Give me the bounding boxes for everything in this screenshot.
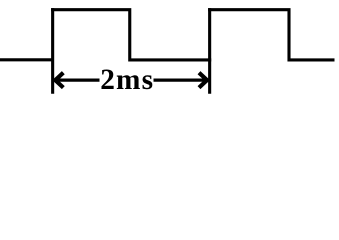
wire pulse1 top, falling edge, mid low segment [51,10,211,60]
dimension arrowhead left [55,73,63,88]
wire pulse2 top, falling edge, right low segment [208,10,334,60]
dimension arrowhead right [199,73,207,88]
wire pulse1 rising edge with dimension extension line [51,8,54,94]
dimension arrow left shaft [55,78,100,81]
dimension arrow right shaft [154,78,208,81]
wire low-level left segment [0,58,53,61]
svg-text:2ms: 2ms [100,64,154,96]
waveform diagram: square wave with 2ms period dimension [0,0,339,98]
wire pulse2 rising edge with dimension extension line [208,8,211,94]
